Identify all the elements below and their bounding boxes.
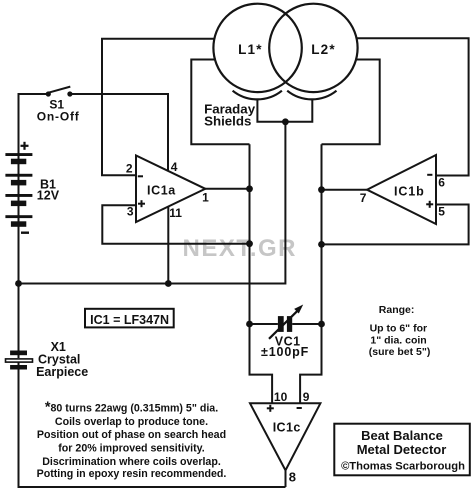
junction pin11 ground	[165, 280, 172, 287]
wire: IC1c pin 8 stub	[285, 469, 287, 487]
junction node A pin3	[246, 240, 253, 247]
svg-text:4: 4	[171, 160, 178, 174]
svg-text:3: 3	[127, 204, 134, 218]
svg-text:IC1a: IC1a	[147, 184, 176, 198]
svg-text:2: 2	[126, 161, 133, 175]
svg-text:7: 7	[360, 191, 367, 205]
wire: faraday shield connector	[257, 99, 312, 122]
wire: node B vertical	[300, 144, 321, 403]
battery plus sign	[21, 142, 29, 150]
svg-text:for 20% improved sensitivity.: for 20% improved sensitivity.	[58, 443, 204, 455]
svg-text:Coils overlap to produce tone.: Coils overlap to produce tone.	[55, 416, 208, 428]
battery minus sign	[21, 232, 29, 234]
wire: VC1 right lead	[292, 323, 321, 325]
faraday shield arc left	[233, 91, 282, 100]
wire: ground rail to faraday center	[19, 122, 286, 284]
svg-text:Beat Balance: Beat Balance	[361, 428, 443, 443]
svg-text:Earpiece: Earpiece	[36, 365, 88, 379]
svg-text:Position out of phase on searc: Position out of phase on search head	[37, 429, 226, 441]
junction ground left rail	[15, 280, 22, 287]
wire: left rail lower + bottom rail	[19, 362, 286, 487]
svg-text:1: 1	[202, 191, 209, 205]
svg-text:L2*: L2*	[311, 42, 336, 57]
box Beat Balance Metal Detector	[334, 424, 470, 476]
op-amp IC1c	[250, 403, 320, 470]
wire: IC1b pin7 output	[322, 189, 368, 191]
coil L1	[213, 4, 301, 92]
svg-text:6: 6	[438, 176, 445, 190]
junction node B pin5	[318, 241, 325, 248]
battery B1 plates	[5, 153, 32, 227]
wire: VC1 left lead	[250, 323, 278, 325]
svg-text:(sure bet 5"): (sure bet 5")	[369, 346, 431, 358]
crystal earpiece X1	[6, 351, 33, 370]
svg-text:Potting in epoxy resin recomme: Potting in epoxy resin recommended.	[37, 468, 227, 480]
svg-text:11: 11	[169, 206, 182, 220]
svg-text:10: 10	[274, 390, 288, 404]
IC1b minus	[427, 174, 432, 176]
svg-text:*80 turns 22awg (0.315mm) 5" d: *80 turns 22awg (0.315mm) 5" dia.	[45, 400, 218, 416]
wire: left rail upper (battery to X1)	[18, 93, 20, 358]
IC1a plus	[138, 200, 145, 207]
IC1a minus	[138, 175, 143, 177]
svg-text:©Thomas Scarborough: ©Thomas Scarborough	[341, 461, 465, 473]
junction VC1 right	[318, 321, 325, 328]
svg-text:IC1c: IC1c	[273, 421, 301, 435]
svg-text:IC1 = LF347N: IC1 = LF347N	[90, 313, 169, 327]
wire: node A vertical	[250, 144, 273, 403]
wire: S1 right segment to IC1a pin4	[70, 94, 168, 171]
svg-text:NEXT.GR: NEXT.GR	[183, 235, 298, 262]
op-amp IC1b	[367, 155, 436, 224]
svg-text:8: 8	[289, 469, 296, 484]
wire: faraday box right	[322, 60, 380, 145]
box IC1 = LF347N	[85, 309, 174, 328]
junction node A pin1	[246, 185, 253, 192]
wire: IC1b pin5 to node B	[322, 205, 469, 245]
svg-text:12V: 12V	[37, 188, 60, 202]
svg-text:Metal Detector: Metal Detector	[357, 442, 447, 457]
wire: top rail right to IC1b pin6	[357, 38, 469, 175]
IC1c plus	[267, 405, 274, 412]
svg-text:IC1b: IC1b	[394, 184, 425, 198]
junction node B pin7	[318, 186, 325, 193]
wire: faraday box left	[191, 60, 249, 145]
junction faraday center	[282, 118, 289, 125]
switch S1 left contact dot	[46, 91, 51, 96]
switch S1 lever	[48, 87, 70, 93]
svg-text:L1*: L1*	[238, 42, 263, 57]
coil L2	[269, 4, 357, 92]
VC1 arrow	[269, 310, 298, 339]
svg-text:Range:: Range:	[379, 304, 415, 316]
wire: top rail left + IC1a pin2 vertical	[102, 39, 215, 176]
svg-text:1" dia. coin: 1" dia. coin	[370, 334, 426, 346]
junction VC1 left	[246, 321, 253, 328]
svg-text:Up to 6" for: Up to 6" for	[370, 323, 427, 335]
variable capacitor VC1 plates	[278, 316, 284, 332]
wire: IC1a pin1 output	[205, 188, 250, 190]
svg-text:5: 5	[438, 204, 445, 218]
svg-text:Shields: Shields	[204, 114, 251, 129]
switch S1 right contact dot	[67, 91, 72, 96]
IC1b plus	[426, 201, 433, 208]
faraday shield arc right	[287, 91, 336, 100]
op-amp IC1a	[136, 156, 205, 223]
svg-text:9: 9	[303, 390, 310, 404]
wire: IC1a pin11	[167, 205, 169, 284]
IC1c minus	[297, 407, 302, 409]
svg-text:On-Off: On-Off	[37, 110, 80, 124]
svg-text:Discrimination where coils ove: Discrimination where coils overlap.	[42, 456, 221, 468]
wire: S1 left segment	[19, 93, 49, 95]
svg-text:±100pF: ±100pF	[261, 345, 309, 359]
wire: IC1a pin3 to node A	[102, 205, 249, 243]
